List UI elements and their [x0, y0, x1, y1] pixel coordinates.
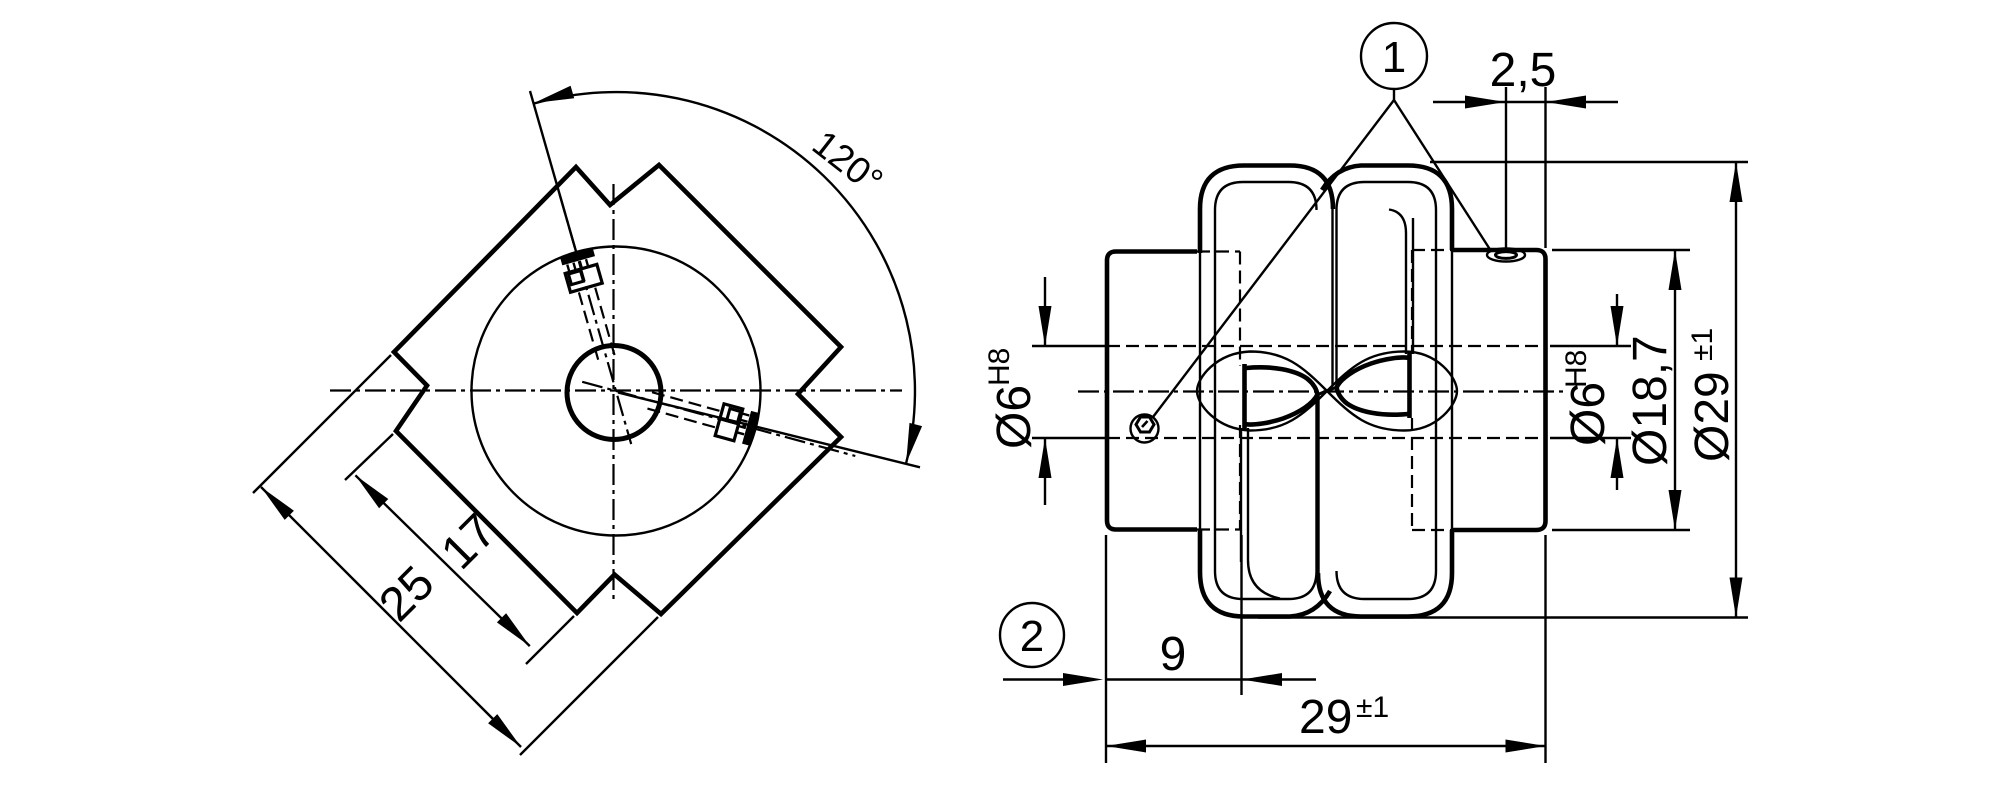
right hub radial hole [1487, 249, 1525, 262]
left loop outer bottom (thick, ends at crossing with right loop) [1200, 529, 1330, 617]
dim dia29 extension bottom [1258, 616, 1748, 618]
dim dia6 right tail bottom [1616, 438, 1618, 490]
hub outline with corner notches (thick) [394, 165, 841, 614]
right hub hidden face [1411, 250, 1413, 530]
dim 9 arrow right [1242, 673, 1282, 686]
dim dia6 left extension top [1032, 345, 1107, 347]
dim dia29 line [1735, 162, 1737, 618]
balloon 2 arrow line [1003, 678, 1076, 680]
right loop outer right (thin, in front of hub) [1451, 250, 1453, 530]
dim 25 extension line lower [520, 617, 658, 755]
right loop outer bottom (thick) [1318, 530, 1452, 617]
dim dia29 extension top [1430, 161, 1748, 163]
balloon 2 [1000, 603, 1064, 667]
dim 17 extension line lower [526, 616, 574, 664]
right hub hidden top edge [1412, 249, 1452, 251]
dim 2,5 extension face [1544, 87, 1546, 248]
dim 9 extension line [1240, 535, 1242, 695]
angle leg line 2 (extension of screw2 axis) [618, 393, 920, 468]
arc arrowhead bottom [906, 423, 922, 463]
left hub outline [1107, 252, 1197, 530]
dim 29+-1 extension right [1544, 535, 1546, 763]
svg-text:±1: ±1 [1686, 328, 1719, 361]
dim dia6 right arrow bottom [1611, 438, 1624, 478]
dim dia6 left arrow top [1039, 306, 1052, 346]
left loop outer left (thin, in front of hub) [1199, 253, 1201, 529]
screw 2 thread hatch [735, 413, 749, 434]
dim dia6 left extension bottom [1032, 437, 1107, 439]
dim dia6 right extension bottom [1550, 437, 1631, 439]
left loop outer top (thick) [1200, 166, 1333, 254]
screw 2 tip bar [742, 411, 759, 446]
screw 2 axis (-14 deg) dash-dot [582, 382, 855, 456]
120 deg dimension arc [534, 92, 915, 463]
right hub radial hole inner [1496, 252, 1517, 259]
arc arrowhead top [534, 86, 574, 103]
dim dia6 right extension top [1550, 345, 1631, 347]
svg-text:9: 9 [1160, 628, 1187, 681]
dim 29+-1 line [1106, 745, 1546, 747]
dim dia29 arrow bottom [1730, 578, 1743, 618]
right hub hidden bottom edge [1412, 529, 1452, 531]
dim dia18,7 arrow bottom [1669, 490, 1682, 530]
svg-text:H8: H8 [983, 348, 1016, 386]
svg-text:Ø6: Ø6 [1562, 382, 1615, 446]
screw 2 hidden shank [646, 392, 720, 428]
dim 29+-1 arrow right [1506, 740, 1546, 753]
S-curve thin lower [1197, 352, 1457, 431]
dim 29+-1 arrow left [1106, 740, 1146, 753]
left hub hidden top edge [1197, 250, 1240, 252]
left loop inner (thin racetrack, right side gap at top) [1215, 182, 1317, 599]
dim dia6 right tail top [1616, 294, 1618, 346]
dim 2,5 extension hole [1505, 87, 1507, 253]
dim dia6 left tail top [1044, 277, 1046, 346]
capsule right flat bar [1407, 352, 1412, 418]
dim 9 arrow tail [1242, 678, 1316, 680]
svg-text:2: 2 [1020, 612, 1044, 661]
dim dia18,7 extension bottom [1552, 529, 1690, 531]
shaft centerline [1078, 390, 1566, 392]
svg-text:2,5: 2,5 [1490, 44, 1557, 97]
left hub hidden bottom edge [1197, 528, 1240, 530]
right loop inner (thin racetrack, left side gap at bottom) [1337, 182, 1437, 599]
dim 25 line [261, 487, 521, 747]
dim 25 extension line upper [253, 355, 391, 493]
bore circle dia 6 (thick) [567, 346, 661, 440]
band edge pair above right capsule [1389, 210, 1413, 355]
balloon 2 arrowhead [1063, 673, 1103, 686]
dim 25 arrow upper [261, 487, 294, 520]
svg-text:H8: H8 [1560, 350, 1593, 388]
left hub set screw [1131, 415, 1159, 443]
right loop outer top (thick, ends at crossing with left loop) [1322, 166, 1452, 251]
screw 1 socket [568, 271, 583, 285]
set screw 2 (right, at -14 deg) [643, 383, 759, 445]
left hub hidden face [1239, 252, 1241, 530]
svg-text:±1: ±1 [1356, 691, 1389, 724]
set screw 1 (top, at 106 deg) [560, 248, 623, 364]
screw 2 head [715, 404, 743, 441]
dim 25 arrow lower [488, 714, 521, 747]
band cross-section capsule left [1246, 367, 1317, 424]
bore hidden line bottom [1107, 437, 1545, 439]
right loop outer left lower (thin) [1317, 395, 1319, 573]
dim 2,5 arrow right [1546, 96, 1586, 109]
svg-text:Ø29: Ø29 [1686, 371, 1739, 462]
screw 1 hidden shank [579, 288, 615, 362]
band crossover stroke a (capsule tips toward crossing) [1317, 387, 1336, 395]
dim 17 line [355, 475, 529, 646]
dim 2,5 line mid [1506, 101, 1545, 103]
svg-text:Ø6: Ø6 [988, 385, 1041, 449]
right hub outline [1452, 250, 1546, 530]
svg-text:29: 29 [1299, 691, 1352, 744]
balloon 1 leader to radial hole [1394, 100, 1491, 251]
dim dia6 left tail bottom [1044, 438, 1046, 505]
dim 2,5 line right [1546, 101, 1619, 103]
dim 2,5 arrow left [1465, 96, 1506, 109]
band edge pair below left capsule [1241, 428, 1280, 599]
dim 17 arrow lower [497, 613, 530, 646]
svg-text:Ø18,7: Ø18,7 [1624, 335, 1677, 466]
angle leg line 1 (extension of screw1 axis) [530, 91, 577, 254]
balloon 1 stub [1393, 89, 1395, 100]
balloon 1 leader to set screw [1153, 100, 1394, 417]
svg-text:1: 1 [1382, 33, 1406, 82]
dim dia6 right arrow top [1611, 306, 1624, 346]
dim 2,5 line left [1433, 101, 1506, 103]
bore hidden line top [1107, 345, 1545, 347]
dim 9 line [1106, 678, 1242, 680]
capsule left flat bar [1242, 364, 1247, 430]
dim dia6 left arrow bottom [1039, 438, 1052, 478]
band cross-section capsule right [1337, 357, 1408, 414]
dim 17 arrow upper [355, 475, 388, 508]
dim 9 extension hub face [1105, 535, 1107, 763]
screw 1 thread hatch [567, 259, 588, 273]
S-curve thin upper [1197, 352, 1457, 431]
left loop outer right upper (thin) [1331, 209, 1333, 385]
dim dia18,7 arrow top [1669, 250, 1682, 290]
screw 1 head [565, 264, 602, 292]
screw 1 tip bar [560, 248, 595, 266]
dim 17 extension line upper [345, 434, 393, 480]
dim dia18,7 extension top [1552, 249, 1690, 251]
dim dia18,7 line [1674, 250, 1676, 530]
vertical centerline [612, 184, 614, 600]
screw 2 socket [727, 409, 741, 424]
hub circle dia 18.7 (thin) [472, 247, 761, 536]
screw 1 axis (106 deg) dash-dot [560, 194, 632, 444]
dim dia29 arrow top [1730, 162, 1743, 202]
horizontal centerline [330, 389, 902, 391]
balloon 1 [1361, 23, 1427, 89]
